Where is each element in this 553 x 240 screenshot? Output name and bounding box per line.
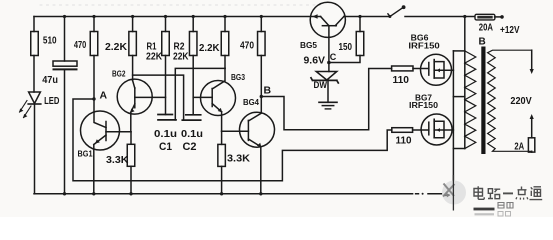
resistor 110 (upper)	[392, 66, 413, 71]
wire BG2 collector cross-coupling to C2	[133, 75, 184, 120]
resistor 510	[33, 17, 35, 93]
faint scan line top	[40, 4, 320, 6]
transistor BG2	[117, 79, 152, 114]
transistor BG3	[201, 81, 236, 116]
svg-text:2.2K: 2.2K	[105, 42, 128, 53]
watermark small marks	[474, 208, 495, 211]
wire bottom rail	[34, 193, 444, 195]
svg-text:110: 110	[393, 75, 410, 86]
svg-text:BG1: BG1	[78, 150, 93, 159]
resistor R1 22K	[165, 17, 167, 115]
svg-text:20A: 20A	[479, 23, 493, 34]
transistor BG1	[81, 111, 120, 150]
svg-text:C: C	[330, 52, 337, 62]
wire C1 cross-coupling to BG3 collector	[175, 68, 225, 120]
svg-text:3.3K: 3.3K	[106, 155, 129, 166]
node C	[327, 61, 331, 65]
svg-text:110: 110	[396, 136, 412, 147]
mosfet BG6	[421, 54, 452, 85]
svg-text:C2: C2	[183, 141, 197, 153]
svg-text:+12V: +12V	[500, 25, 520, 36]
svg-text:220V: 220V	[510, 96, 532, 107]
watermark text dianlu yidiantong	[474, 186, 542, 199]
capacitor 47u	[64, 17, 66, 62]
transistor BG5	[310, 2, 345, 37]
transformer B secondary	[488, 50, 532, 151]
ground	[319, 101, 337, 103]
node A	[92, 97, 95, 100]
wire 220V output top	[531, 50, 533, 70]
watermark logo	[442, 175, 466, 211]
capacitor C1	[158, 114, 172, 116]
svg-text:0.1u: 0.1u	[181, 129, 203, 140]
svg-text:3.3K: 3.3K	[227, 154, 251, 165]
svg-text:9.6V: 9.6V	[304, 56, 326, 67]
wire bus bottom connector	[453, 148, 464, 150]
svg-text:22K: 22K	[173, 52, 189, 63]
wire bus top connector	[453, 50, 464, 52]
svg-text:IRF150: IRF150	[408, 41, 440, 50]
zener diode DW	[328, 63, 330, 72]
svg-text:2A: 2A	[514, 141, 524, 152]
svg-text:BG5: BG5	[300, 41, 318, 50]
junction dots top rail	[63, 15, 467, 18]
LED	[29, 92, 41, 104]
capacitor C2	[186, 114, 201, 116]
wire A feedback path	[73, 99, 392, 181]
wire top rail left	[34, 16, 321, 18]
svg-text:2.2K: 2.2K	[199, 43, 220, 54]
fuse 2A	[528, 138, 534, 152]
svg-text:B: B	[479, 37, 486, 48]
resistor 110 (lower)	[392, 128, 413, 133]
wire drain-source bus	[452, 51, 454, 194]
switch K	[388, 15, 391, 18]
svg-text:DW: DW	[314, 80, 328, 90]
svg-text:LED: LED	[44, 96, 59, 107]
wire BG3 emitter to BG4 base	[222, 130, 249, 132]
svg-text:C1: C1	[159, 141, 172, 153]
svg-text:47u: 47u	[42, 75, 58, 86]
junction dots bottom rail	[63, 192, 263, 195]
svg-text:IRF150: IRF150	[409, 101, 439, 110]
transformer core	[481, 47, 485, 155]
svg-text:0.1u: 0.1u	[154, 129, 177, 140]
resistor 3.3K (left)	[130, 132, 132, 194]
transformer B primary	[464, 51, 466, 149]
resistor 2.2K (first)	[132, 17, 134, 81]
svg-text:A: A	[100, 90, 108, 102]
resistor 470 (left)	[93, 17, 95, 100]
wire rail drop to transformer	[464, 17, 466, 51]
resistor 2.2K (second)	[224, 17, 226, 69]
fuse 20A	[475, 14, 495, 20]
resistor 470 (right)	[260, 17, 262, 97]
wire 220V output bottom	[531, 118, 533, 138]
resistor R2 22K	[192, 17, 194, 115]
svg-text:BG3: BG3	[231, 73, 245, 82]
svg-text:150: 150	[339, 42, 353, 53]
svg-text:B: B	[264, 85, 272, 97]
svg-text:BG4: BG4	[243, 98, 260, 107]
svg-text:510: 510	[43, 36, 57, 47]
node B	[260, 95, 263, 98]
transistor BG4	[240, 112, 275, 147]
svg-text:470: 470	[74, 40, 87, 51]
svg-text:470: 470	[240, 41, 254, 52]
wire B feedback path	[261, 69, 391, 130]
mosfet BG7	[421, 114, 452, 145]
svg-text:22K: 22K	[146, 52, 163, 63]
resistor 150	[329, 17, 360, 63]
svg-text:BG2: BG2	[112, 70, 126, 79]
wire top rail mid	[344, 16, 390, 18]
wire top rail right	[405, 16, 475, 18]
resistor 3.3K (right)	[221, 131, 223, 194]
wire fuse to +12V terminal	[495, 16, 501, 18]
wire bus mid connector	[453, 96, 464, 98]
